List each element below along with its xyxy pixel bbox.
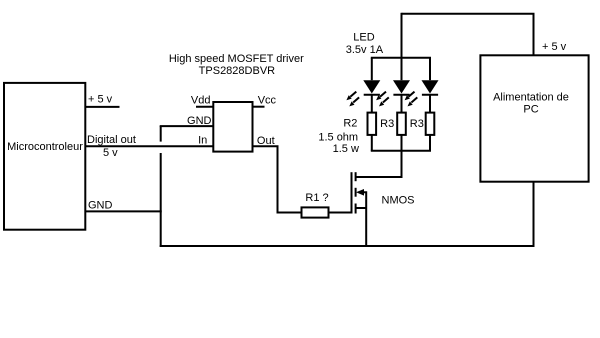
svg-text:Vcc: Vcc (258, 94, 277, 106)
svg-text:Alimentation de: Alimentation de (493, 92, 569, 104)
LED emission arrow lower head (349, 101, 354, 106)
svg-text:1.5 ohm: 1.5 ohm (318, 131, 358, 143)
svg-text:R2: R2 (343, 118, 357, 130)
wire GND from driver GND pin going left (160, 125, 214, 127)
LED D1 triangle (363, 80, 380, 93)
resistor R1 body (302, 207, 329, 217)
wire digital out from microcontroller to driver In pin (85, 145, 213, 147)
wire bottom ground rail (160, 245, 534, 247)
wire cathode to resistor (371, 95, 373, 113)
svg-text:3.5v 1A: 3.5v 1A (346, 44, 384, 56)
svg-text:+ 5 v: + 5 v (542, 41, 567, 53)
LED emission arrow upper head (346, 95, 351, 100)
LED D1 cathode bar (364, 94, 380, 96)
op-amp U1 MOSFET driver TPS2828DBVR body (213, 102, 252, 152)
svg-text:GND: GND (187, 115, 212, 127)
svg-text:TPS2828DBVR: TPS2828DBVR (199, 65, 275, 77)
wire power supply bottom to ground rail (533, 182, 535, 247)
wire Vcc pin stub (253, 106, 265, 108)
wire LED top bus (371, 57, 431, 59)
transistor Q1 NMOS gate bar (351, 172, 353, 213)
LED D1 branch with series resistor R2 (346, 58, 380, 151)
svg-text:R3: R3 (410, 118, 424, 130)
svg-text:5 v: 5 v (103, 147, 118, 159)
LED D3 branch with resistor R3 (405, 58, 439, 151)
wire source arrow tail and source down to ground rail (363, 192, 367, 247)
svg-text:LED: LED (353, 32, 374, 44)
wire Vdd pin stub (196, 106, 213, 108)
wire source bottom segment connector (356, 207, 367, 209)
svg-text:In: In (198, 135, 207, 147)
wire top +5v rail from LED branch to power supply (402, 14, 534, 56)
svg-text:+ 5 v: + 5 v (88, 94, 113, 106)
svg-text:PC: PC (523, 104, 538, 116)
microcontroller box (4, 83, 85, 230)
wire GND stub from microcontroller (85, 210, 161, 212)
svg-text:Microcontroleur: Microcontroleur (7, 141, 83, 153)
svg-text:Digital out: Digital out (87, 134, 136, 146)
LED D2 branch with resistor R3 (376, 58, 410, 151)
svg-text:Out: Out (257, 135, 275, 147)
LED emission arrow upper shaft (350, 92, 356, 97)
transistor Q1 NMOS body arrow head (356, 189, 364, 196)
svg-text:R3: R3 (380, 118, 394, 130)
wire LED bottom bus (371, 150, 431, 152)
transistor Q1 channel middle segment (355, 188, 357, 197)
svg-text:NMOS: NMOS (382, 195, 415, 207)
wire drain of NMOS right then up to LED bottom bus (356, 150, 402, 177)
svg-text:High speed MOSFET driver: High speed MOSFET driver (169, 53, 304, 65)
wire LED center branch up to top rail (401, 13, 403, 58)
svg-text:GND: GND (88, 200, 113, 212)
wire from Out pin right then down to R1 (253, 146, 302, 212)
wire GND vertical lower segment down to ground rail (160, 153, 162, 247)
svg-text:R1 ?: R1 ? (305, 192, 328, 204)
PC power supply box (480, 55, 588, 181)
resistor R2 body (368, 113, 377, 135)
wire GND vertical upper segment (break at digital-out crossing) (160, 126, 162, 142)
wire anode drop from top bus (371, 58, 373, 80)
LED emission arrow lower shaft (353, 97, 359, 102)
svg-text:1.5 w: 1.5 w (333, 143, 359, 155)
transistor Q1 channel top segment (355, 172, 357, 181)
svg-text:Vdd: Vdd (191, 95, 211, 107)
wire R1 to MOSFET gate (329, 212, 352, 214)
wire resistor to bottom bus (371, 135, 373, 151)
transistor Q1 channel bottom segment (355, 204, 357, 214)
wire +5v stub from microcontroller (85, 106, 119, 108)
